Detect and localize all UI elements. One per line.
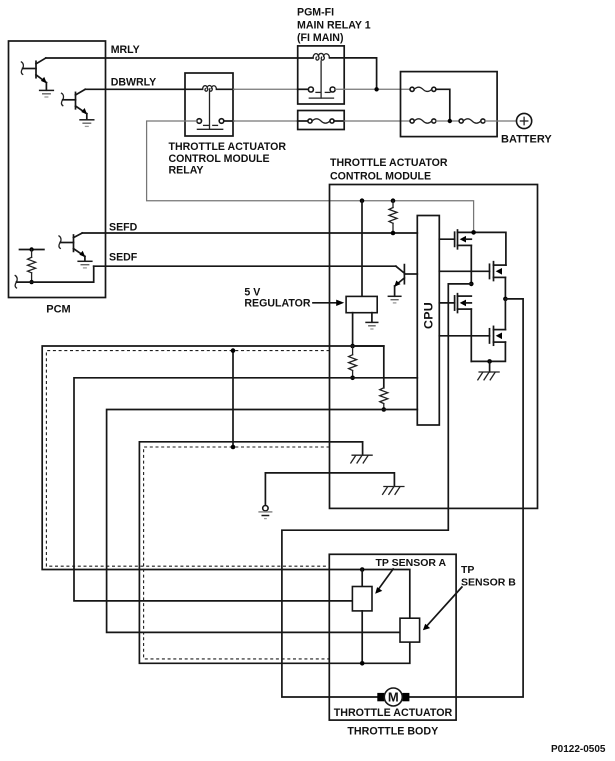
relay coil (TACM relay)	[203, 85, 217, 91]
fuse B (bottom left)	[410, 119, 436, 123]
node sensor A signal	[350, 376, 355, 381]
relay armature (PGM-FI)	[320, 61, 322, 98]
resistor in PCM (pull-up)	[20, 247, 44, 284]
ground (regulator)	[365, 322, 378, 329]
relay contacts (PGM-FI)	[308, 87, 335, 98]
PGM-FI main relay 1 box	[298, 46, 345, 104]
wire relay contact loop to module	[147, 121, 474, 231]
ground (Q1 emitter)	[39, 90, 54, 97]
svg-text:TP: TP	[461, 564, 474, 576]
resistor (TP sensor A pull)	[349, 346, 357, 378]
svg-text:SENSOR B: SENSOR B	[461, 576, 516, 588]
arrow TP sensor A	[375, 569, 393, 594]
5 V REGULATOR label	[244, 286, 310, 309]
earth ground symbol	[258, 506, 272, 519]
wire sensor A feed	[361, 570, 363, 587]
relay coil (PGM-FI)	[313, 53, 330, 60]
ground (Q2 emitter)	[79, 120, 94, 127]
TP SENSOR B label	[461, 564, 516, 588]
throttle actuator control module label	[330, 157, 448, 182]
svg-text:MAIN RELAY 1: MAIN RELAY 1	[297, 19, 371, 31]
ground (Q4 emitter)	[388, 296, 402, 303]
node shield link top	[231, 348, 236, 353]
chassis ground (case)	[383, 487, 404, 495]
wire between fuses	[436, 120, 459, 122]
wire sensor B signal loop	[107, 410, 418, 633]
chassis ground (logic)	[351, 455, 372, 463]
throttle actuator control module relay box	[185, 73, 233, 136]
shield 2 (dashed)	[144, 447, 330, 659]
wire Q6/Q8 drain link	[504, 299, 506, 330]
fuse C (bottom right)	[459, 119, 485, 123]
throttle body box	[329, 554, 456, 720]
CPU box	[417, 216, 439, 426]
wire Q5 drain bus	[474, 232, 506, 265]
wire fuse to underhood fuse box	[334, 120, 344, 122]
svg-text:5 V: 5 V	[244, 286, 260, 298]
wire coil out to junction	[330, 58, 377, 89]
wire SEDF	[94, 265, 396, 267]
arrow TP sensor B	[423, 587, 462, 630]
node SEFD pull-up	[391, 231, 396, 236]
wire shield link	[232, 351, 234, 447]
svg-text:CONTROL MODULE: CONTROL MODULE	[169, 153, 270, 165]
wire sensor ground loop	[139, 442, 409, 664]
wire fuse to battery	[485, 120, 517, 122]
wire bridge source bus	[471, 342, 505, 361]
relay armature (TACM relay)	[209, 92, 211, 130]
MOSFET Q8 (low side B)	[439, 326, 505, 345]
node sensor A ground	[360, 661, 365, 666]
svg-text:CONTROL MODULE: CONTROL MODULE	[330, 170, 431, 182]
node junction coil/contact	[374, 87, 378, 91]
node Q5 drain	[471, 230, 476, 235]
wire relay right contact to fuse	[224, 120, 234, 122]
node 5V at sensor A	[360, 567, 365, 572]
wire to bridge ground	[489, 361, 491, 371]
svg-text:RELAY: RELAY	[169, 165, 204, 177]
node motor A	[469, 282, 474, 287]
svg-text:SEFD: SEFD	[109, 222, 138, 234]
fuse A (top row)	[410, 87, 436, 91]
svg-text:THROTTLE ACTUATOR: THROTTLE ACTUATOR	[334, 707, 453, 719]
wire motor A tap	[282, 284, 471, 697]
transistor Q4 (SEDF, in module)	[394, 265, 417, 297]
throttle actuator motor	[377, 688, 409, 706]
node sensor B signal	[382, 407, 387, 412]
wire SEDF inside PCM	[15, 266, 94, 288]
wire motor B tap	[409, 299, 523, 697]
transistor Q1 (MRLY driver)	[21, 58, 47, 90]
wire logic ground	[330, 442, 363, 455]
node shield link bottom	[231, 445, 236, 450]
TP sensor A element	[352, 587, 372, 611]
wire sensor A to ground bus	[361, 611, 363, 663]
fuse box (No.2 fuse)	[298, 111, 345, 130]
wire DBWRLY relay to PGM-FI contact	[217, 88, 234, 90]
MOSFET Q7 (low side A)	[439, 294, 471, 313]
transistor Q3 (SEFD driver)	[59, 233, 85, 261]
throttle actuator control module relay label	[169, 141, 287, 177]
under-hood fuse/relay box	[401, 72, 498, 137]
wire case ground	[265, 473, 394, 486]
node motor B	[503, 297, 508, 302]
svg-text:THROTTLE BODY: THROTTLE BODY	[347, 726, 438, 738]
svg-text:CPU: CPU	[422, 302, 436, 329]
wire Q7 source down	[470, 309, 472, 361]
TP sensor B element	[400, 618, 420, 642]
MOSFET Q6 (high side B)	[439, 262, 506, 281]
svg-text:THROTTLE ACTUATOR: THROTTLE ACTUATOR	[330, 157, 448, 169]
battery	[517, 113, 532, 128]
arrow to regulator	[313, 300, 344, 306]
5V regulator box	[346, 296, 377, 312]
svg-text:MRLY: MRLY	[111, 44, 140, 56]
chassis ground (bridge)	[478, 372, 499, 380]
wire fuse A to bus	[436, 89, 450, 121]
svg-text:BATTERY: BATTERY	[501, 134, 552, 146]
svg-text:(FI MAIN): (FI MAIN)	[297, 32, 343, 44]
wire PGM-FI contact to fuse box	[335, 88, 410, 90]
ground (Q3 emitter)	[77, 261, 92, 268]
wire DBWRLY	[85, 88, 202, 90]
node VBU on top rail	[360, 198, 365, 203]
PCM box	[9, 41, 106, 298]
svg-text:PCM: PCM	[46, 304, 70, 316]
node 5V to resistor chain	[350, 344, 355, 349]
svg-text:P0122-0505: P0122-0505	[551, 744, 606, 755]
wire to earth ground	[264, 473, 266, 505]
transistor Q2 (DBWRLY driver)	[61, 89, 87, 119]
node bridge ground	[487, 359, 492, 364]
wire regulator feed	[361, 201, 363, 297]
svg-text:M: M	[388, 690, 399, 705]
wire Q5 source down	[470, 245, 472, 284]
throttle actuator control module box	[330, 185, 538, 509]
svg-text:SEDF: SEDF	[109, 252, 138, 264]
shield 1 (dashed)	[46, 351, 329, 567]
wire SEFD	[82, 232, 417, 234]
svg-text:THROTTLE ACTUATOR: THROTTLE ACTUATOR	[169, 141, 287, 153]
resistor (TP sensor B pull)	[380, 388, 388, 410]
wire 5V rail branch	[353, 346, 384, 388]
MOSFET Q5 (high side A)	[439, 230, 473, 249]
svg-text:PGM-FI: PGM-FI	[297, 7, 334, 19]
wire regulator 5V output	[352, 313, 354, 346]
node resistor top on rail	[391, 198, 396, 203]
svg-text:TP SENSOR A: TP SENSOR A	[376, 557, 447, 569]
node bus junction	[448, 119, 452, 123]
wire sensor A signal loop	[74, 378, 417, 601]
wire VCC loop (5V to sensors)	[42, 346, 410, 618]
resistor (rail to SEFD)	[389, 201, 397, 233]
wire MRLY	[46, 57, 313, 59]
relay contacts (TACM relay)	[197, 119, 224, 130]
wire Q6 source down	[504, 277, 506, 299]
svg-text:DBWRLY: DBWRLY	[111, 77, 157, 89]
PGM-FI label	[297, 7, 371, 45]
wire regulator ground	[371, 313, 373, 323]
svg-text:REGULATOR: REGULATOR	[244, 298, 310, 310]
fuse (No.2)	[308, 119, 334, 123]
